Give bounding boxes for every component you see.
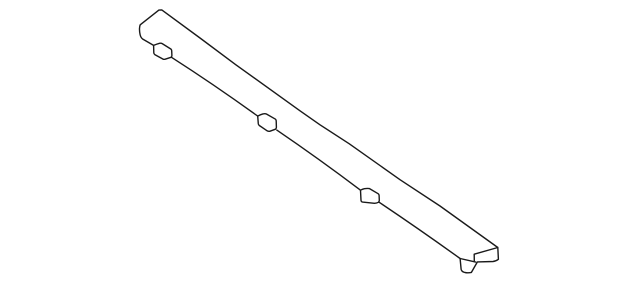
clip 1	[154, 43, 172, 59]
clip 2	[258, 114, 277, 132]
end face fold line	[474, 248, 498, 261]
molding strip main outline	[139, 10, 498, 273]
clip 3	[361, 188, 380, 203]
molding bottom edge segment between clip2 and clip3	[277, 130, 361, 190]
tab fold top edge	[460, 259, 476, 263]
molding bottom edge segment between clip1 and clip2	[171, 57, 257, 116]
